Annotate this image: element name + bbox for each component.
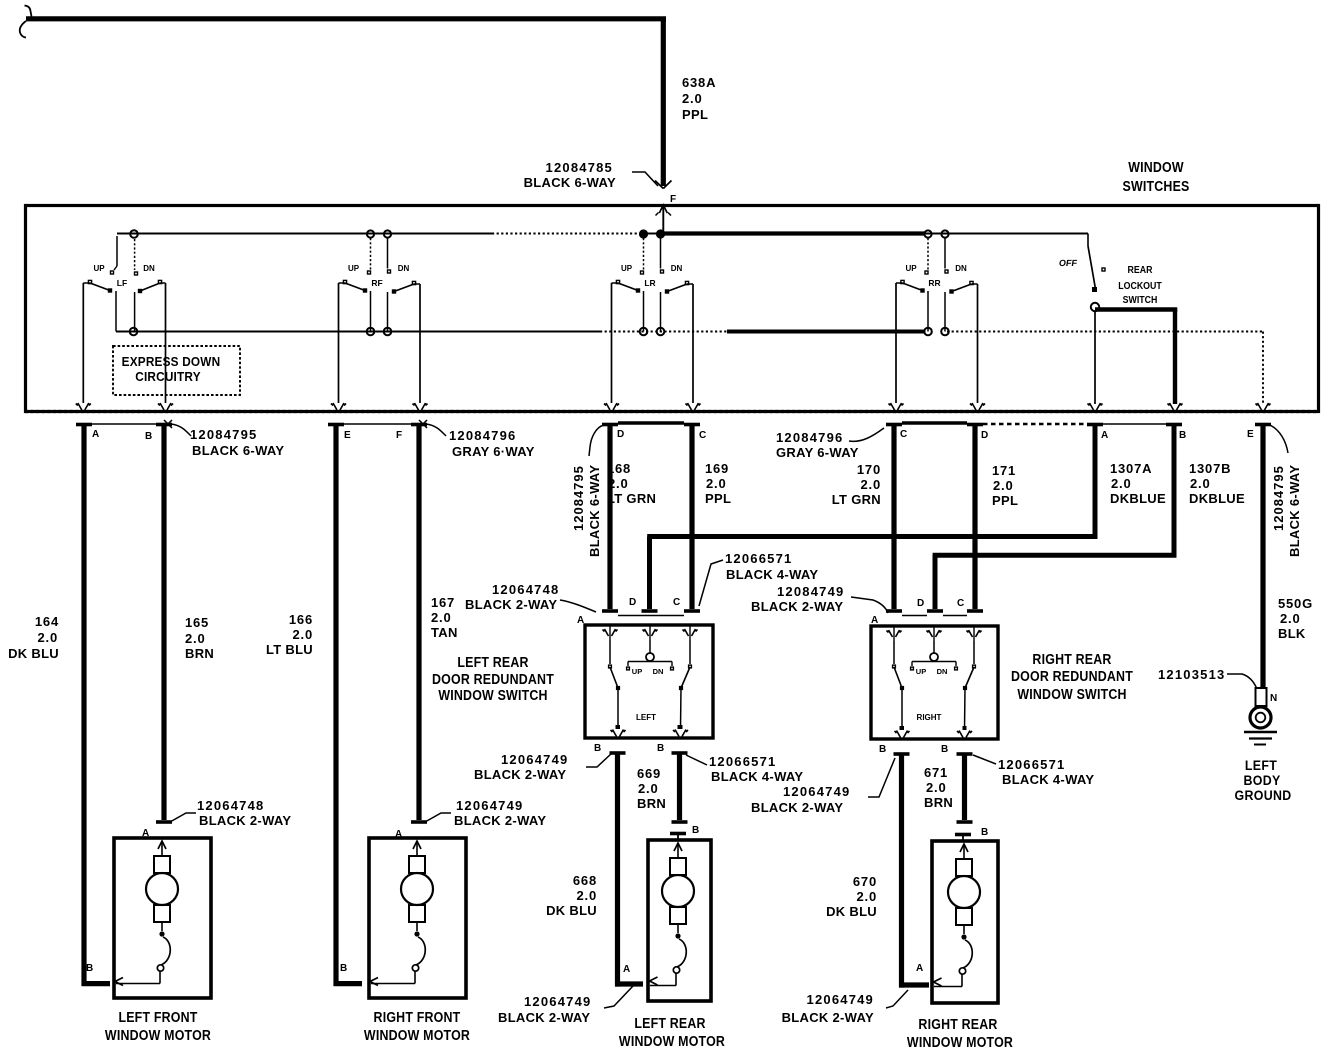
- svg-text:BLACK 4-WAY: BLACK 4-WAY: [1002, 772, 1094, 787]
- svg-text:B: B: [981, 827, 988, 838]
- svg-text:CIRCUITRY: CIRCUITRY: [135, 369, 201, 384]
- wire 668 DK BLU (left redundant B to LR motor): [615, 752, 620, 987]
- svg-text:12066571: 12066571: [709, 754, 776, 769]
- leader from 12103513 to ring terminal: [1227, 674, 1257, 689]
- svg-text:B: B: [657, 743, 664, 754]
- leader from 12084749 label to right redundant pin A: [851, 597, 888, 613]
- svg-text:2.0: 2.0: [638, 781, 658, 796]
- svg-text:12066571: 12066571: [998, 757, 1065, 772]
- right redundant switch internals: [933, 641, 935, 653]
- leader to 12064749 label at LR motor: [604, 986, 633, 1008]
- svg-text:A: A: [1101, 430, 1108, 441]
- svg-text:B: B: [941, 744, 948, 755]
- wire 638A horizontal feed: [26, 16, 666, 21]
- svg-text:BLACK 6-WAY: BLACK 6-WAY: [192, 443, 284, 458]
- leader from pin E to right vertical label: [1270, 425, 1288, 453]
- svg-text:12064749: 12064749: [807, 992, 874, 1007]
- svg-text:2.0: 2.0: [185, 631, 205, 646]
- wire 670 DK BLU (right redundant B to RR motor): [899, 753, 904, 988]
- connector 12084795 pins A and B (lockout feeds): [1087, 423, 1103, 427]
- express down circuitry box: [113, 346, 240, 395]
- svg-text:E: E: [344, 430, 351, 441]
- svg-text:671: 671: [924, 765, 948, 780]
- svg-text:OFF: OFF: [1058, 258, 1078, 268]
- svg-text:LT GRN: LT GRN: [607, 491, 656, 506]
- leader from right GRAY label to pin C: [849, 428, 884, 441]
- svg-text:E: E: [1247, 429, 1254, 440]
- leader to 12064749 label at RF motor: [425, 813, 451, 822]
- leader from 12064749 label to left redundant B wire: [586, 753, 612, 767]
- svg-text:RIGHT REAR: RIGHT REAR: [1032, 650, 1111, 667]
- svg-text:12084785: 12084785: [546, 160, 613, 175]
- svg-text:BRN: BRN: [637, 796, 666, 811]
- connector splice mark at 638A wire end: [655, 181, 663, 189]
- connector 12084795 pin E (ground wire): [1255, 423, 1271, 427]
- wire 164 DK BLU (pin A to LF motor B): [81, 426, 86, 986]
- svg-text:C: C: [900, 429, 907, 440]
- wire 167 TAN (pin F to RF motor A): [416, 426, 421, 820]
- svg-text:BLACK 2-WAY: BLACK 2-WAY: [465, 597, 557, 612]
- leader from 12084785 label to connector F: [632, 172, 658, 186]
- svg-text:2.0: 2.0: [608, 476, 628, 491]
- svg-text:DK BLU: DK BLU: [8, 646, 59, 661]
- svg-text:GROUND: GROUND: [1235, 787, 1292, 803]
- svg-text:12084796: 12084796: [449, 428, 516, 443]
- svg-text:B: B: [692, 825, 699, 836]
- svg-text:12064749: 12064749: [501, 752, 568, 767]
- svg-text:A: A: [623, 964, 630, 975]
- svg-text:LOCKOUT: LOCKOUT: [1118, 280, 1162, 292]
- svg-text:A: A: [916, 963, 923, 974]
- svg-text:BLACK 2-WAY: BLACK 2-WAY: [498, 1010, 590, 1025]
- svg-text:DN: DN: [653, 667, 664, 676]
- svg-text:670: 670: [853, 874, 877, 889]
- svg-text:12084795: 12084795: [190, 427, 257, 442]
- lower bus dotted segment to right side: [947, 331, 1263, 333]
- svg-text:12066571: 12066571: [725, 551, 792, 566]
- svg-text:12064749: 12064749: [783, 784, 850, 799]
- svg-text:12064749: 12064749: [456, 798, 523, 813]
- svg-text:RR: RR: [928, 278, 940, 288]
- svg-text:TAN: TAN: [431, 625, 458, 640]
- svg-text:PPL: PPL: [682, 107, 708, 122]
- lower bus wire inside switch box: [116, 331, 600, 333]
- wire 165 BRN (pin B to LF motor A): [161, 426, 166, 820]
- lower bus drop to pin E: [1262, 332, 1264, 405]
- svg-text:2.0: 2.0: [577, 888, 597, 903]
- right rear window motor: [932, 841, 998, 1003]
- svg-text:UP: UP: [348, 264, 360, 273]
- leader from left vertical label to pin D: [589, 425, 604, 456]
- connector bracket between right redundant pins: [902, 615, 927, 617]
- svg-text:BLACK 4-WAY: BLACK 4-WAY: [726, 567, 818, 582]
- svg-text:C: C: [673, 597, 680, 608]
- svg-text:EXPRESS DOWN: EXPRESS DOWN: [122, 354, 221, 369]
- svg-text:SWITCH: SWITCH: [1123, 294, 1158, 306]
- leader from 12066571 label to pins: [699, 560, 723, 606]
- svg-text:B: B: [594, 743, 601, 754]
- leader from 12064748 inline label to pin D foot: [560, 600, 596, 612]
- svg-text:F: F: [396, 430, 402, 441]
- svg-text:12084749: 12084749: [777, 584, 844, 599]
- svg-text:RF: RF: [371, 278, 382, 288]
- svg-text:BLACK 2-WAY: BLACK 2-WAY: [751, 599, 843, 614]
- svg-text:F: F: [670, 194, 676, 205]
- svg-text:1307A: 1307A: [1110, 461, 1152, 476]
- svg-text:LEFT: LEFT: [1245, 757, 1278, 773]
- svg-text:A: A: [577, 615, 584, 626]
- svg-text:WINDOW: WINDOW: [1128, 158, 1184, 175]
- svg-text:2.0: 2.0: [1111, 476, 1131, 491]
- svg-text:2.0: 2.0: [38, 630, 58, 645]
- svg-text:165: 165: [185, 615, 209, 630]
- wire 170 LT GRN (pin C to right redundant A): [891, 426, 896, 609]
- svg-text:171: 171: [992, 463, 1016, 478]
- svg-text:BLACK 6-WAY: BLACK 6-WAY: [1287, 465, 1302, 557]
- svg-text:GRAY 6·WAY: GRAY 6·WAY: [452, 444, 535, 459]
- svg-text:C: C: [699, 430, 706, 441]
- leader from wire 669 foot to 12066571 label: [686, 755, 707, 765]
- right front window motor: [369, 838, 466, 998]
- svg-text:PPL: PPL: [705, 491, 731, 506]
- switch RF (right front window switch): [367, 230, 374, 237]
- svg-text:BLACK 2-WAY: BLACK 2-WAY: [474, 767, 566, 782]
- svg-text:LEFT REAR: LEFT REAR: [457, 653, 528, 670]
- svg-text:167: 167: [431, 595, 455, 610]
- svg-text:BODY: BODY: [1243, 772, 1280, 788]
- svg-text:RIGHT FRONT: RIGHT FRONT: [374, 1008, 461, 1025]
- svg-text:WINDOW MOTOR: WINDOW MOTOR: [907, 1033, 1013, 1050]
- wire 171 PPL (pin D to right redundant C): [972, 426, 977, 609]
- svg-text:12084795: 12084795: [1271, 465, 1286, 531]
- leader to 12064749 label at RR motor: [886, 990, 908, 1008]
- leader to 12064748 label at LF motor: [170, 813, 196, 822]
- svg-text:2.0: 2.0: [993, 478, 1013, 493]
- svg-text:164: 164: [35, 614, 59, 629]
- svg-text:REAR: REAR: [1128, 264, 1153, 276]
- svg-text:N: N: [1270, 693, 1277, 704]
- svg-text:C: C: [957, 598, 964, 609]
- left redundant switch internals: [649, 640, 651, 653]
- wire 169 PPL (pin C to left redundant C): [689, 426, 694, 609]
- wire 638A vertical drop to connector F: [661, 19, 666, 186]
- rear lockout switch: [1087, 234, 1089, 247]
- svg-text:LR: LR: [644, 278, 655, 288]
- svg-text:2.0: 2.0: [1280, 611, 1300, 626]
- svg-text:2.0: 2.0: [857, 889, 877, 904]
- svg-text:SWITCHES: SWITCHES: [1122, 177, 1189, 194]
- svg-text:LEFT FRONT: LEFT FRONT: [118, 1008, 197, 1025]
- entry arrows into right redundant switch: [889, 630, 893, 637]
- svg-text:B: B: [340, 963, 347, 974]
- svg-text:BRN: BRN: [185, 646, 214, 661]
- svg-text:638A: 638A: [682, 75, 716, 90]
- arrow into window switch box at F: [662, 206, 664, 234]
- svg-text:B: B: [145, 431, 152, 442]
- connector 12084796 pins E and F: [328, 423, 344, 427]
- connector 12084795 pins A and B: [76, 423, 92, 427]
- svg-text:WINDOW MOTOR: WINDOW MOTOR: [619, 1032, 725, 1049]
- svg-text:PPL: PPL: [992, 493, 1018, 508]
- svg-text:170: 170: [857, 462, 881, 477]
- entry arrows into left redundant switch: [605, 629, 609, 636]
- upper bus wire inside switch box: [117, 233, 492, 235]
- svg-text:12103513: 12103513: [1158, 667, 1225, 682]
- svg-text:12064748: 12064748: [492, 582, 559, 597]
- svg-text:12064748: 12064748: [197, 798, 264, 813]
- svg-text:2.0: 2.0: [926, 780, 946, 795]
- svg-text:BLACK 2-WAY: BLACK 2-WAY: [454, 813, 546, 828]
- svg-text:RIGHT REAR: RIGHT REAR: [918, 1015, 997, 1032]
- svg-text:BLACK 2-WAY: BLACK 2-WAY: [782, 1010, 874, 1025]
- svg-text:DK BLU: DK BLU: [826, 904, 877, 919]
- window switch assembly box: [26, 206, 1319, 412]
- lockout output wire to pin B: [1095, 307, 1177, 311]
- svg-text:D: D: [617, 429, 624, 440]
- svg-text:12084795: 12084795: [571, 465, 586, 531]
- wire 669 BRN (left redundant B to LR motor B): [677, 752, 682, 821]
- left front window motor: [114, 838, 211, 998]
- svg-text:RIGHT: RIGHT: [917, 713, 942, 722]
- svg-text:DN: DN: [955, 264, 967, 273]
- svg-text:DOOR REDUNDANT: DOOR REDUNDANT: [432, 670, 554, 687]
- crossover wire 1307A to left redundant D: [647, 534, 1097, 539]
- svg-text:LT BLU: LT BLU: [266, 642, 313, 657]
- svg-text:550G: 550G: [1278, 596, 1313, 611]
- svg-text:B: B: [1179, 430, 1186, 441]
- wire 1307B DKBLUE (pin B to right redundant D): [1172, 426, 1177, 558]
- svg-text:DN: DN: [937, 667, 948, 676]
- ground symbol: [1244, 731, 1277, 734]
- leader from wire 671 foot to 12066571 label: [973, 755, 996, 764]
- svg-text:DN: DN: [671, 264, 683, 273]
- svg-text:UP: UP: [916, 667, 926, 676]
- svg-text:WINDOW MOTOR: WINDOW MOTOR: [105, 1026, 211, 1043]
- svg-text:DN: DN: [143, 264, 155, 273]
- wire 550G BLK (pin E to left body ground): [1260, 426, 1265, 690]
- leader from pin F to 12084796 label: [426, 424, 446, 436]
- wire 168 LT GRN (pin D to left redundant A): [607, 426, 612, 609]
- svg-text:DOOR REDUNDANT: DOOR REDUNDANT: [1011, 667, 1133, 684]
- connector 12084796 pins C and D (to right rear door): [886, 423, 902, 427]
- svg-text:2.0: 2.0: [431, 610, 451, 625]
- leader from 12064749 label to RR switch wire: [868, 758, 895, 797]
- leader from pin B to 12084795 label: [171, 424, 191, 436]
- svg-text:LF: LF: [117, 278, 127, 288]
- svg-text:D: D: [629, 597, 636, 608]
- switch LR (left rear window switch): [640, 230, 647, 237]
- svg-text:DKBLUE: DKBLUE: [1110, 491, 1166, 506]
- svg-text:168: 168: [607, 461, 631, 476]
- svg-text:LEFT REAR: LEFT REAR: [634, 1014, 705, 1031]
- svg-text:DKBLUE: DKBLUE: [1189, 491, 1245, 506]
- svg-text:D: D: [981, 430, 988, 441]
- svg-text:2.0: 2.0: [706, 476, 726, 491]
- ring terminal at ground: [1256, 688, 1267, 706]
- svg-text:169: 169: [705, 461, 729, 476]
- svg-text:GRAY 6-WAY: GRAY 6-WAY: [776, 445, 859, 460]
- svg-text:B: B: [879, 744, 886, 755]
- svg-text:UP: UP: [905, 264, 917, 273]
- wire 166 LT BLU (pin E to RF motor B): [333, 426, 338, 986]
- svg-text:2.0: 2.0: [293, 627, 313, 642]
- svg-text:LEFT: LEFT: [636, 713, 656, 722]
- svg-text:BLK: BLK: [1278, 626, 1306, 641]
- svg-text:WINDOW SWITCH: WINDOW SWITCH: [1017, 685, 1126, 702]
- svg-text:12064749: 12064749: [524, 994, 591, 1009]
- svg-text:BRN: BRN: [924, 795, 953, 810]
- svg-text:BLACK 6-WAY: BLACK 6-WAY: [524, 175, 616, 190]
- svg-text:2.0: 2.0: [861, 477, 881, 492]
- switch RR (right rear window switch): [924, 230, 931, 237]
- svg-text:2.0: 2.0: [682, 91, 702, 106]
- svg-text:BLACK 6-WAY: BLACK 6-WAY: [587, 465, 602, 557]
- connector bracket between left redundant pins D and C: [618, 615, 684, 617]
- lockout wire to pin A: [1094, 311, 1096, 404]
- svg-text:UP: UP: [621, 264, 633, 273]
- svg-text:669: 669: [637, 766, 661, 781]
- wire 638A feed - left continuation squiggle: [25, 6, 32, 17]
- left rear door redundant window switch box: [585, 625, 713, 738]
- lower bus thick segment near RR switch: [727, 330, 926, 334]
- svg-text:668: 668: [573, 873, 597, 888]
- svg-text:WINDOW MOTOR: WINDOW MOTOR: [364, 1026, 470, 1043]
- svg-text:WINDOW SWITCH: WINDOW SWITCH: [438, 686, 547, 703]
- svg-text:2.0: 2.0: [1190, 476, 1210, 491]
- svg-text:B: B: [86, 963, 93, 974]
- upper bus thick segment from F feed: [661, 231, 925, 235]
- svg-text:12084796: 12084796: [776, 430, 843, 445]
- svg-text:BLACK 2-WAY: BLACK 2-WAY: [751, 800, 843, 815]
- svg-text:A: A: [92, 429, 99, 440]
- svg-text:166: 166: [289, 612, 313, 627]
- svg-text:LT GRN: LT GRN: [832, 492, 881, 507]
- wire 671 BRN (right redundant B to RR motor B): [962, 753, 967, 821]
- svg-text:BLACK 2-WAY: BLACK 2-WAY: [199, 813, 291, 828]
- svg-text:1307B: 1307B: [1189, 461, 1231, 476]
- svg-text:BLACK 4-WAY: BLACK 4-WAY: [711, 769, 803, 784]
- left rear window motor: [648, 840, 711, 1001]
- right rear door redundant window switch box: [871, 626, 998, 739]
- svg-text:DN: DN: [398, 264, 410, 273]
- svg-text:UP: UP: [93, 264, 105, 273]
- wire 1307A DKBLUE (pin A to crossover): [1093, 426, 1098, 539]
- svg-text:UP: UP: [632, 667, 642, 676]
- connector 12084795 pins D and C (to left rear door): [602, 423, 618, 427]
- svg-text:D: D: [917, 598, 924, 609]
- switch LF (left front window switch): [130, 230, 138, 238]
- svg-text:DK BLU: DK BLU: [546, 903, 597, 918]
